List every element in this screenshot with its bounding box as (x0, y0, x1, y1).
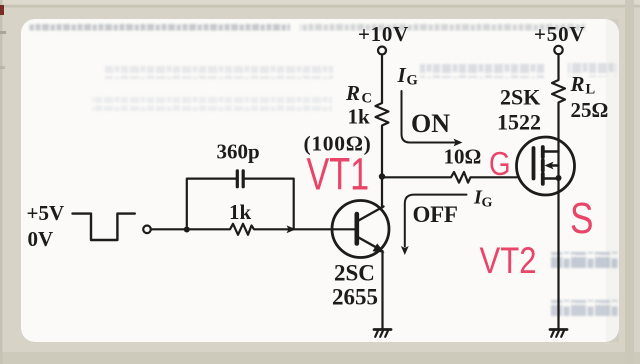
svg-text:OFF: OFF (413, 202, 458, 227)
svg-text:25Ω: 25Ω (571, 98, 609, 122)
svg-text:+10V: +10V (358, 22, 409, 46)
svg-text:1k: 1k (348, 105, 371, 129)
svg-text:+50V: +50V (534, 22, 585, 46)
svg-text:G: G (489, 146, 511, 183)
svg-text:+5V: +5V (27, 201, 65, 225)
svg-text:360p: 360p (217, 140, 260, 164)
svg-text:1k: 1k (229, 200, 252, 224)
svg-text:1522: 1522 (497, 110, 541, 135)
svg-text:R: R (345, 81, 360, 105)
svg-text:S: S (570, 194, 593, 243)
svg-text:ON: ON (411, 109, 450, 138)
svg-text:2SK: 2SK (500, 85, 540, 110)
svg-text:G: G (407, 73, 418, 89)
svg-text:2655: 2655 (332, 285, 378, 310)
svg-text:L: L (586, 82, 596, 98)
svg-text:R: R (570, 72, 585, 96)
svg-text:VT2: VT2 (480, 241, 537, 282)
svg-text:2SC: 2SC (334, 261, 375, 286)
svg-text:I: I (397, 63, 407, 87)
svg-text:VT1: VT1 (307, 150, 370, 200)
svg-text:G: G (482, 196, 493, 211)
svg-text:10Ω: 10Ω (444, 145, 482, 169)
svg-text:0V: 0V (28, 227, 54, 251)
